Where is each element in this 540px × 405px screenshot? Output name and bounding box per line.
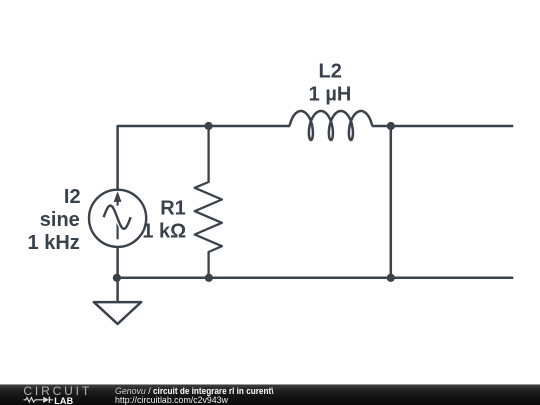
- svg-text:L2: L2: [319, 60, 342, 82]
- svg-text:I2: I2: [64, 186, 81, 208]
- svg-text:sine: sine: [40, 209, 80, 231]
- svg-text:R1: R1: [160, 198, 186, 220]
- svg-text:1 kHz: 1 kHz: [28, 232, 80, 254]
- svg-text:1 µH: 1 µH: [309, 83, 352, 105]
- svg-text:1 kΩ: 1 kΩ: [142, 220, 186, 242]
